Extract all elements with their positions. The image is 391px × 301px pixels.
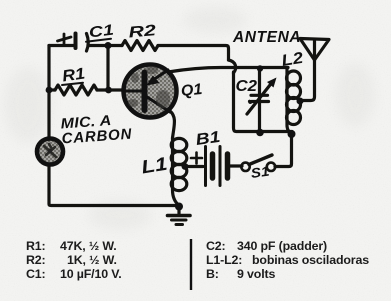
svg-text:R2: R2 xyxy=(128,21,157,41)
svg-text:R2:: R2: xyxy=(26,253,46,267)
svg-text:C1:: C1: xyxy=(26,267,46,281)
svg-text:L1: L1 xyxy=(140,154,169,178)
svg-text:R1:: R1: xyxy=(26,239,46,253)
svg-text:ANTENA: ANTENA xyxy=(232,29,301,46)
svg-text:9 volts: 9 volts xyxy=(237,267,275,281)
svg-text:B:: B: xyxy=(206,267,219,281)
svg-text:C2:: C2: xyxy=(206,239,226,253)
svg-text:S1: S1 xyxy=(250,164,270,182)
svg-text:B1: B1 xyxy=(194,127,221,148)
svg-text:10 µF/10 V.: 10 µF/10 V. xyxy=(60,267,122,281)
svg-text:bobinas osciladoras: bobinas osciladoras xyxy=(252,253,369,267)
svg-text:1K, ½ W.: 1K, ½ W. xyxy=(67,253,117,267)
svg-text:Q1: Q1 xyxy=(180,81,203,100)
svg-text:L1-L2:: L1-L2: xyxy=(206,253,242,267)
svg-text:47K, ½ W.: 47K, ½ W. xyxy=(60,239,117,253)
svg-text:340 pF (padder): 340 pF (padder) xyxy=(237,239,327,253)
svg-text:C2: C2 xyxy=(236,77,257,95)
svg-text:L2: L2 xyxy=(280,48,305,70)
